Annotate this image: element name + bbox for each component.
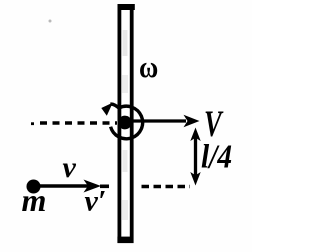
- v arrow shaft: [39, 184, 88, 187]
- rod (vertical bar): [119, 6, 131, 241]
- dash left of rod lower: [100, 185, 109, 189]
- l/4 top arrowhead: [190, 128, 200, 142]
- rotation arrow neck: [111, 104, 120, 108]
- rod top cap: [118, 4, 135, 10]
- V arrow shaft: [131, 119, 186, 122]
- rotation arc omega: [111, 106, 143, 139]
- svg-text:l/4: l/4: [201, 138, 232, 175]
- rotation arrowhead: [101, 103, 113, 116]
- dashed line left (through pivot): [31, 122, 34, 125]
- l/4 double arrow shaft: [194, 137, 197, 176]
- rod texture smudges: [123, 30, 128, 56]
- svg-text:v: v: [63, 151, 77, 184]
- v arrowhead: [84, 180, 102, 193]
- pivot dot: [118, 116, 132, 130]
- V arrowhead: [184, 115, 200, 127]
- scan speckle: [49, 20, 52, 23]
- dashed line right lower: [142, 185, 191, 189]
- svg-text:ω: ω: [139, 50, 158, 84]
- svg-text:v′: v′: [85, 185, 107, 218]
- rod bottom cap: [117, 237, 132, 243]
- mass dot m: [27, 180, 41, 194]
- svg-text:m: m: [22, 182, 47, 218]
- l/4 bottom arrowhead: [190, 172, 200, 186]
